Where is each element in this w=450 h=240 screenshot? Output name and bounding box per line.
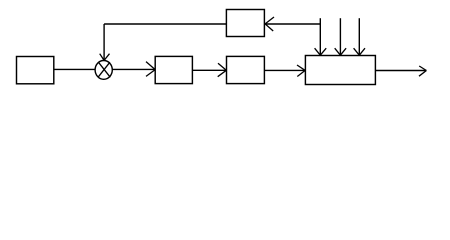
arrowhead input 2: [335, 48, 346, 55]
arrowhead input 1: [315, 48, 327, 55]
arrowhead into block B: [218, 63, 227, 76]
block B: [227, 56, 265, 83]
wire compensator to summing junction (horizontal): [104, 23, 226, 25]
arrowhead into block A: [146, 62, 155, 77]
wire source to summing junction: [55, 68, 95, 70]
block A: [155, 56, 192, 83]
output arrowhead: [419, 66, 426, 76]
wire summing junction to block A: [112, 68, 155, 70]
arrowhead into summing junction top: [100, 54, 110, 61]
input line 2 into plant: [339, 18, 341, 55]
arrowhead into plant left side: [297, 65, 305, 77]
input line 1 into plant: [319, 18, 321, 55]
arrowhead into compensator right side: [265, 17, 274, 31]
wire compensator to summing junction (vertical drop): [103, 24, 105, 60]
wire block A to block B: [192, 69, 226, 71]
output wire: [375, 70, 426, 72]
arrowhead input 3: [354, 48, 365, 55]
block compensator (top box): [226, 10, 264, 37]
block source (left box): [17, 57, 54, 84]
input line 3 into plant: [358, 18, 360, 55]
summing junction X: [98, 62, 110, 77]
feedforward wire from input line 1 to compensator: [265, 23, 320, 25]
block plant (big box): [305, 56, 375, 85]
wire block B to plant: [264, 69, 305, 71]
summing junction circle: [95, 61, 112, 80]
